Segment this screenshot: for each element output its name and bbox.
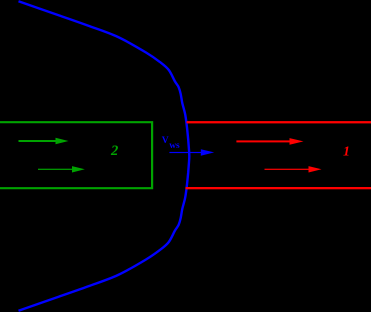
region 2 box (green rectangle, open at left edge) [0,122,152,188]
green arrow lower [38,166,85,172]
svg-text:1: 1 [343,145,350,160]
region 1 bottom line (red) [186,187,371,189]
red arrow lower [265,166,322,172]
green arrow upper [19,138,69,145]
region 1 top line (red) [187,121,371,123]
svg-text:2: 2 [110,143,118,159]
svg-text:V: V [162,136,169,146]
shock-velocity arrow (blue) [169,149,214,156]
svg-text:ws: ws [169,141,180,151]
red arrow upper [236,138,303,145]
bow shock curve (blue) [19,1,190,310]
